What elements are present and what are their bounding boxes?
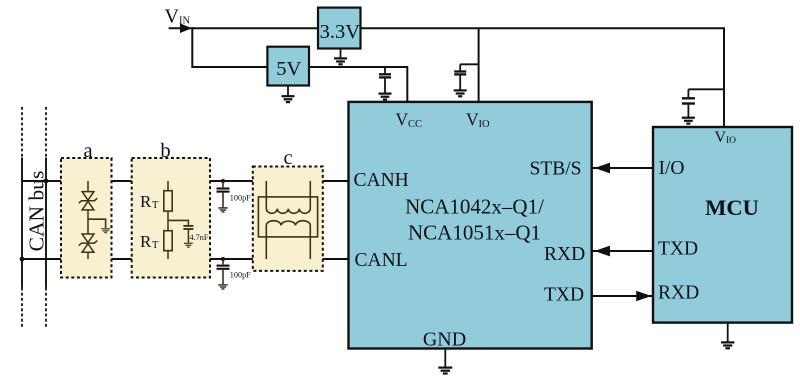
wire split midpoint to C4 [168,220,188,225]
ground under C5 [218,208,227,212]
termination block b [132,140,210,278]
transceiver IC U1 NCA1042x-Q1/NCA1051x-Q1 [349,102,592,349]
capacitor C5 100pF on CANH [217,179,230,207]
CAN bus line 2 (dashed ends) [45,107,47,327]
svg-text:TXD: TXD [658,239,698,260]
svg-text:b: b [160,140,170,162]
svg-text:T: T [152,200,159,211]
svg-text:V: V [165,6,180,28]
capacitor C4 4.7nF [183,226,193,243]
svg-text:4.7nF: 4.7nF [190,233,209,242]
ground under MCU [721,323,734,349]
ground under C2 [454,90,467,96]
capacitor C6 100pF on CANL [217,257,230,284]
ground under C3 [682,118,695,124]
wire CANH [22,180,349,182]
protection block a [61,140,112,278]
wire TVS midpoint to ground [88,219,106,228]
svg-text:TXD: TXD [544,285,584,306]
svg-text:RXD: RXD [658,283,699,304]
wire MCU TXD to U1 RXD [592,250,653,252]
arrow into RXD (U1) [595,246,611,257]
pin label VCC [396,110,423,131]
regulator 5V [267,47,309,86]
wire CANL [22,258,349,260]
svg-text:CANL: CANL [355,250,408,271]
junction CANL-bus [20,257,25,262]
svg-text:STB/S: STB/S [530,159,582,180]
svg-text:IO: IO [726,136,736,146]
resistor RT2 [164,231,172,251]
svg-text:V: V [396,110,409,130]
svg-text:NCA1042x–Q1/: NCA1042x–Q1/ [405,195,544,219]
capacitor C1 on VCC rail [379,67,391,93]
ground under C1 [379,94,392,100]
svg-text:NCA1051x–Q1: NCA1051x–Q1 [408,221,541,245]
svg-text:5V: 5V [276,58,301,80]
ground under 3.3V regulator [334,49,347,65]
svg-text:c: c [283,147,292,169]
wire U1 TXD to MCU RXD [592,295,653,297]
TVS diode D1 [79,192,97,210]
pin label VIO (MCU) [715,129,737,146]
ground under C4 [184,243,193,247]
svg-text:GND: GND [423,329,466,351]
pin label VIO (U1) [466,110,490,131]
svg-text:CC: CC [408,119,422,130]
resistor RT1 [164,191,172,211]
svg-text:I/O: I/O [659,158,685,179]
svg-text:a: a [83,140,92,162]
svg-text:RXD: RXD [544,244,585,265]
regulator 3.3V [318,8,361,49]
arrow into RXD (MCU) [636,291,651,301]
svg-text:R: R [140,192,152,211]
junction CANH-bus [44,179,49,184]
choke winding top [266,181,310,213]
CAN bus line 1 (dashed ends) [21,107,23,327]
svg-text:MCU: MCU [705,195,759,220]
svg-text:T: T [152,240,159,251]
capacitor C2 on VIO rail [454,64,478,90]
arrow VIN [180,23,192,33]
common-mode choke L1 core [258,197,317,237]
svg-text:V: V [715,129,727,146]
svg-text:IO: IO [479,119,490,130]
wire VIN input [169,27,318,29]
wire 5V output to IC VCC pin [309,67,407,102]
svg-text:R: R [140,232,152,251]
arrow into STB/S [595,163,611,174]
wire 3.3V branch to IC VIO pin [478,28,480,102]
TVS diode D2 [79,234,97,252]
ground in block a [101,229,110,233]
svg-text:V: V [466,110,479,130]
capacitor C3 at MCU VIO [682,89,724,117]
wire TVS string [87,181,89,259]
ground under C6 [218,285,227,289]
wire VIN to 5V regulator [192,27,267,67]
MCU U2 [653,127,792,323]
ground under IC U1 [438,349,452,374]
choke winding bottom [266,221,310,259]
label RT2 [140,232,159,251]
node VIN label [165,6,191,28]
wire 3.3V rail to MCU VIO [361,28,725,127]
wire STB/S to I/O [592,167,653,169]
svg-text:3.3V: 3.3V [320,21,361,43]
label RT1 [140,192,159,211]
choke block c [253,147,323,271]
svg-text:CANH: CANH [354,170,409,191]
svg-text:100pF: 100pF [230,271,251,280]
svg-text:100pF: 100pF [230,194,251,203]
ground under 5V regulator [282,86,295,103]
wire termination string [167,181,169,259]
